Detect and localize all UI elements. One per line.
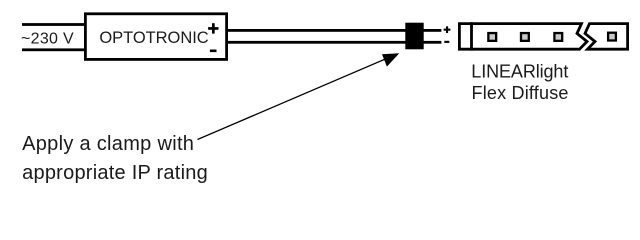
svg-text:~230 V: ~230 V xyxy=(21,31,74,48)
LED strip section 2 body xyxy=(585,24,628,50)
wire - driver to clamp xyxy=(227,41,406,44)
driver - terminal mark xyxy=(210,50,217,53)
LED D3 xyxy=(554,33,562,41)
strip end-cap separator xyxy=(470,22,473,50)
strip + polarity mark xyxy=(444,26,451,33)
wire N mains bottom xyxy=(22,48,84,51)
wire + driver to clamp xyxy=(227,29,406,32)
clamp (black block) xyxy=(405,23,423,50)
svg-text:LINEARlight: LINEARlight xyxy=(471,61,568,81)
driver U1 OPTOTRONIC box xyxy=(85,14,226,60)
wire - clamp to strip xyxy=(423,41,441,44)
wire + clamp to strip xyxy=(423,29,441,32)
svg-text:Apply a clamp with: Apply a clamp with xyxy=(22,133,194,155)
LED D2 xyxy=(521,33,529,41)
callout arrow head xyxy=(382,53,399,66)
LED D1 xyxy=(488,33,496,41)
driver + terminal mark xyxy=(208,23,218,33)
callout arrow line xyxy=(198,58,388,139)
wire L mains top xyxy=(22,23,84,26)
strip - polarity mark xyxy=(444,41,449,43)
LED D4 xyxy=(608,33,616,41)
svg-text:appropriate IP rating: appropriate IP rating xyxy=(22,162,208,184)
svg-text:OPTOTRONIC: OPTOTRONIC xyxy=(99,29,208,47)
svg-text:Flex Diffuse: Flex Diffuse xyxy=(472,83,569,103)
LED strip section 1 body xyxy=(459,24,587,50)
